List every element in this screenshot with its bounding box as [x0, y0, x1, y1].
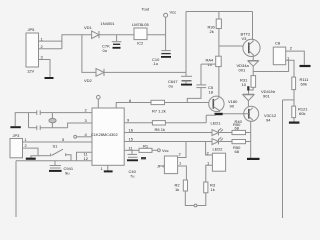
wire R1 to Vcc terminal: [152, 149, 158, 151]
wire junction to V3 base: [219, 45, 249, 47]
wire JP5 pin3: [39, 60, 51, 78]
capacitor C10: [161, 51, 170, 54]
wire R50a out: [246, 132, 251, 134]
wire LED1 to R50a: [219, 132, 233, 134]
wire MCU pin15 row to LED2: [124, 141, 212, 143]
resistor R7: [151, 100, 165, 104]
wire MCU pin9 row: [124, 122, 152, 124]
svg-text:LED2: LED2: [213, 147, 224, 152]
svg-text:R7 1.2k: R7 1.2k: [152, 109, 166, 114]
resistor R3: [204, 182, 208, 193]
resistor R2: [183, 180, 187, 191]
wire C5 top link: [201, 63, 216, 65]
LED LED1: [212, 128, 223, 135]
svg-text:VD2: VD2: [84, 78, 93, 83]
wire VD2 cathode to 12V rail: [104, 71, 186, 73]
svg-text:VD1: VD1: [84, 25, 93, 30]
wire V1 emitter: [218, 110, 220, 112]
wire C5 bottom to V1 base wire: [187, 88, 201, 103]
svg-text:16: 16: [129, 128, 134, 133]
svg-text:2k: 2k: [210, 29, 214, 34]
wire LED2 row tap to JP4 pin2: [178, 142, 186, 158]
diode VD4: [243, 94, 254, 100]
svg-text:S1: S1: [53, 144, 59, 149]
resistor R31: [251, 76, 256, 88]
wire V3 emitter down: [252, 56, 254, 61]
connector C8: [273, 47, 285, 65]
wire MCU pin16 row to LED1: [124, 132, 212, 134]
svg-text:JP3: JP3: [13, 133, 21, 138]
wire R2 bottom: [185, 191, 194, 206]
capacitor C40: [128, 150, 138, 157]
wire R50b out: [246, 141, 251, 143]
svg-text:C1K28MC4302: C1K28MC4302: [91, 132, 118, 137]
capacitor C7: [112, 35, 122, 45]
svg-text:001: 001: [239, 68, 246, 73]
dark block: [141, 157, 146, 159]
wire R44 to V1 collector: [218, 67, 220, 97]
connector JP3: [10, 139, 23, 158]
svg-text:68: 68: [235, 126, 240, 131]
resistor R111: [292, 77, 296, 90]
wire bus to V3 top: [252, 12, 254, 41]
svg-text:C8: C8: [275, 41, 281, 46]
terminal Vcc right: [158, 149, 161, 152]
svg-text:15: 15: [129, 137, 134, 142]
wire R6 jog up: [206, 114, 216, 116]
wire node to R3: [197, 193, 206, 206]
svg-text:JP4: JP4: [157, 164, 165, 169]
wire bottom rail: [16, 160, 92, 162]
wire rail down to C6: [185, 72, 187, 76]
wire R6 to jog: [165, 122, 206, 124]
svg-text:60k: 60k: [301, 82, 307, 87]
wire rail left down: [15, 161, 17, 217]
svg-text:18: 18: [209, 90, 214, 95]
wire R31 to VD4: [249, 87, 254, 94]
svg-text:Vcc: Vcc: [170, 10, 177, 15]
resistor R6: [152, 121, 165, 125]
svg-text:Tout: Tout: [142, 7, 150, 12]
diode VD3: [248, 61, 259, 67]
svg-text:94: 94: [266, 118, 271, 123]
svg-text:68: 68: [235, 149, 240, 154]
wire JP4 pin1 to R2: [178, 166, 187, 180]
node circle bottom: [194, 204, 197, 207]
connector JP5: [26, 33, 39, 67]
svg-text:9u: 9u: [65, 171, 69, 176]
resistor R44: [216, 56, 222, 66]
svg-text:1k: 1k: [175, 187, 179, 192]
regulator IC2 LM78L05: [134, 28, 147, 40]
wire caps left join: [28, 113, 30, 128]
wire crystal bottom to MCU pin3: [68, 123, 92, 128]
wire emitter row to V9 base: [223, 113, 249, 115]
ground JP3 pin2: [26, 158, 36, 160]
wire R30 to R44: [218, 29, 220, 57]
ground C7: [113, 47, 121, 49]
svg-text:Vcc: Vcc: [162, 148, 169, 153]
resistor R30: [216, 19, 221, 29]
wire R3 top to box pin1: [206, 165, 213, 182]
wire LED2 row tap to box pin2: [206, 142, 213, 156]
svg-text:V3: V3: [242, 36, 248, 41]
wire C8 pin1 to R111: [286, 60, 294, 77]
svg-text:1k: 1k: [211, 187, 215, 192]
svg-text:R1: R1: [143, 144, 149, 149]
wire JP3 pin1 to MCU pin5: [23, 141, 93, 143]
terminal Vcc top: [164, 13, 168, 50]
svg-text:12: 12: [84, 156, 89, 161]
resistor R50b: [232, 140, 246, 144]
wire R111 to R121: [293, 90, 295, 107]
ground crystal: [10, 126, 20, 128]
resistor R1: [139, 148, 152, 152]
diode VD1: [92, 31, 99, 39]
ground C8 pin2: [300, 65, 311, 67]
ground JP5 pin3: [45, 77, 54, 79]
svg-text:LM78L05: LM78L05: [132, 22, 149, 27]
resistor R50a: [232, 130, 246, 134]
transistor V9: [244, 106, 259, 121]
wire branch down to VD2: [82, 35, 96, 73]
wire junction right to C8 pin1: [253, 60, 288, 71]
ground C9: [49, 170, 62, 172]
wire JP3 pin2: [23, 148, 39, 158]
wire rail riser to MCU pin11: [77, 152, 93, 160]
wire junction pins 1-2 up: [62, 35, 92, 49]
ground C40: [127, 159, 138, 161]
diode VD2: [96, 69, 104, 77]
wire V9 emitter to ground: [250, 121, 252, 158]
microcontroller U1: [92, 108, 124, 165]
wire JP5 pin1: [39, 40, 62, 42]
connector LED2 box: [212, 153, 225, 171]
connector JP4: [164, 156, 177, 174]
wire VD3 to junction: [252, 66, 254, 75]
svg-text:1N4001: 1N4001: [101, 21, 116, 26]
svg-text:IC2: IC2: [137, 41, 144, 46]
capacitor C9: [50, 161, 61, 168]
wire R7 to V1 base: [165, 102, 214, 104]
terminal MCU pin4: [74, 135, 92, 138]
capacitor left bottom: [29, 125, 68, 130]
wire MCU pin11 row: [124, 149, 139, 151]
wire R121 to ground: [293, 118, 295, 122]
crystal circuit: capacitor left top: [29, 110, 53, 115]
svg-text:60k: 60k: [299, 111, 305, 116]
wire C8 pin2 to ground: [286, 51, 305, 65]
svg-text:JP5: JP5: [28, 27, 36, 32]
wire junction tap to long vertical: [283, 99, 295, 101]
capacitor C6: [181, 76, 192, 84]
resistor R121: [292, 106, 296, 118]
wire JP5 pin2: [39, 48, 62, 50]
svg-text:0u: 0u: [169, 84, 173, 89]
junction stub dark: [247, 86, 249, 90]
ground C6: [181, 84, 192, 86]
wire bus to R30: [218, 12, 220, 20]
svg-text:901: 901: [263, 94, 270, 99]
ground R121: [289, 121, 300, 123]
svg-text:90: 90: [230, 104, 235, 109]
capacitor C5: [196, 85, 206, 88]
wire MCU pin6 up: [116, 103, 151, 109]
transistor V1: [209, 96, 224, 111]
svg-text:7u: 7u: [130, 174, 134, 179]
crystal Q1: [49, 113, 56, 128]
wire VD4 to V9: [247, 101, 249, 107]
wire IC2 out: [147, 34, 166, 36]
wire to ground left: [15, 113, 28, 126]
wire top bus: [186, 11, 253, 13]
ground C10: [161, 56, 171, 58]
wire long vertical down: [282, 100, 284, 218]
transistor V3: [243, 39, 260, 56]
wire LED2 to R50b: [219, 141, 233, 143]
svg-text:.1u: .1u: [153, 61, 159, 66]
switch S1: [38, 149, 71, 160]
svg-text:10: 10: [242, 82, 247, 87]
svg-text:LED1: LED1: [211, 120, 222, 125]
wire VD1 cathode to IC2: [99, 34, 134, 36]
svg-text:12V: 12V: [27, 69, 34, 74]
wire 12V rail vertical: [185, 12, 187, 73]
svg-text:R6 1k: R6 1k: [155, 127, 165, 132]
terminal circle MCU top: [97, 95, 101, 108]
ground MCU pin: [104, 170, 113, 172]
junction bar V1 emitter: [215, 113, 223, 115]
svg-text:0u: 0u: [103, 48, 107, 53]
wire crystal top to MCU pin2: [52, 112, 92, 114]
ground V9: [247, 158, 260, 160]
wire MCU bottom pin1: [107, 166, 109, 171]
LED LED2: [212, 137, 223, 144]
